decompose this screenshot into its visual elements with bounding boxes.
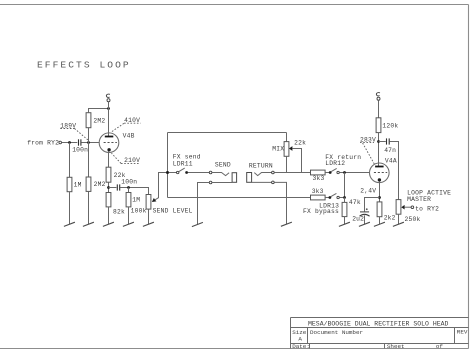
wire 1M to ground <box>69 192 71 225</box>
wire plate to cap <box>379 141 386 143</box>
svg-text:2u2: 2u2 <box>352 215 364 222</box>
junction cathode divider node <box>107 186 110 189</box>
wire send sleeve to ground <box>198 183 210 225</box>
svg-text:2M2: 2M2 <box>94 181 106 188</box>
svg-text:FX bypass: FX bypass <box>303 208 339 215</box>
resistor R8 3k3 (bypass) <box>311 195 326 200</box>
wire 2M2 to ground <box>88 191 90 224</box>
wire return tip to mix node <box>274 172 310 174</box>
capacitor C1 100n (input) <box>78 139 80 145</box>
junction plate node <box>377 140 380 143</box>
ground (2M2) <box>83 222 94 226</box>
wire 47k ground <box>344 217 346 225</box>
capacitor C4 2u2 (polarized) <box>360 211 369 213</box>
title block frame <box>291 318 469 349</box>
ground (send jack sleeve) <box>192 222 203 226</box>
resistor R1 1M (input) <box>67 177 72 191</box>
resistor R5 82k <box>106 193 111 207</box>
svg-text:of: of <box>436 343 444 350</box>
wire cathode to cap 2u2 <box>365 198 380 212</box>
ground (master pot) <box>393 222 404 226</box>
sheet border right <box>468 5 470 349</box>
resistor R6 1M (send) <box>126 193 131 207</box>
terminal to RY2 <box>411 206 414 209</box>
svg-text:210V: 210V <box>124 157 140 164</box>
svg-text:Document Number: Document Number <box>310 329 363 336</box>
triode V4A <box>370 163 390 183</box>
svg-text:100k: 100k <box>131 208 147 215</box>
svg-text:to RY2: to RY2 <box>415 205 439 212</box>
junction grid node <box>87 141 90 144</box>
switch LDR12 <box>325 172 329 174</box>
junction 1M node <box>127 186 130 189</box>
wire wiper to RY2 <box>405 206 412 208</box>
wire loop left vertical <box>167 133 169 198</box>
wire input node down <box>69 143 71 178</box>
svg-text:SEND LEVEL: SEND LEVEL <box>153 208 193 215</box>
resistor R9 47k (grid leak) <box>342 202 347 216</box>
svg-text:Date:: Date: <box>292 343 310 350</box>
junction supply rail <box>107 107 110 110</box>
junction 47k node <box>343 196 346 199</box>
wire master pot ground <box>398 214 400 224</box>
supply symbol C (V4A) <box>377 97 380 100</box>
svg-text:1M: 1M <box>74 182 82 189</box>
junction input node <box>68 141 71 144</box>
wire cap to pot <box>120 188 149 195</box>
svg-text:47n: 47n <box>384 147 396 154</box>
wire mix wiper <box>292 149 301 173</box>
switch LDR13 <box>325 197 329 199</box>
capacitor C2 100n (send) <box>116 184 118 190</box>
svg-text:SEND: SEND <box>215 162 231 169</box>
resistor R4 22k (cathode) <box>106 167 111 182</box>
wire cap to grid node <box>81 142 99 144</box>
wire LDR11 to send jack <box>188 172 209 174</box>
capacitor C3 47n <box>386 138 388 144</box>
wire node to 1M <box>128 188 130 193</box>
wire supply to 120k <box>378 100 380 118</box>
svg-text:RETURN: RETURN <box>249 163 273 170</box>
ground (2u2) <box>359 222 370 226</box>
svg-text:100n: 100n <box>121 178 137 185</box>
resistor R7 3k3 (return) <box>311 170 326 175</box>
svg-text:120k: 120k <box>382 122 398 129</box>
leader 189V underline <box>60 128 74 130</box>
svg-text:82k: 82k <box>113 209 125 216</box>
svg-text:LDR11: LDR11 <box>173 161 193 168</box>
svg-text:Sheet: Sheet <box>387 343 405 350</box>
svg-text:MIX: MIX <box>272 145 284 152</box>
svg-text:V4A: V4A <box>385 157 397 164</box>
svg-text:REV: REV <box>457 329 468 336</box>
ground (1M send) <box>123 222 134 226</box>
ground (input 1M) <box>64 222 75 226</box>
ground (send level pot) <box>143 222 154 226</box>
svg-text:2M2: 2M2 <box>93 118 105 125</box>
wire node to cap <box>109 187 117 189</box>
sheet border top <box>0 4 469 6</box>
svg-text:LDR12: LDR12 <box>325 160 345 167</box>
ground (2k2) <box>374 222 385 226</box>
resistor R10 120k (plate) <box>376 118 381 133</box>
svg-text:2,4V: 2,4V <box>360 188 376 195</box>
wire 2k2 ground <box>379 217 381 225</box>
wire return sleeve to ground <box>274 182 286 224</box>
potentiometer LOOP ACTIVE MASTER 250k <box>396 200 401 215</box>
svg-text:A: A <box>298 336 302 343</box>
wire cathode V4A <box>379 181 381 202</box>
wire loop to mix top <box>286 133 288 142</box>
svg-text:from RY2: from RY2 <box>27 140 59 147</box>
svg-text:MASTER: MASTER <box>407 196 431 203</box>
svg-text:2k2: 2k2 <box>384 215 396 222</box>
wire 120k to plate <box>378 133 380 167</box>
triode V4B <box>99 133 119 153</box>
wire send sleeve to body <box>212 182 232 184</box>
ground (return jack sleeve) <box>281 222 292 226</box>
wire supply to plate <box>108 102 110 137</box>
wire return sleeve to body <box>252 181 272 183</box>
ground (47k) <box>339 222 350 226</box>
svg-text:250k: 250k <box>405 216 421 223</box>
wire 1M send to ground <box>128 207 130 224</box>
resistor R2 2M2 (upper divider) <box>86 113 91 128</box>
terminal from RY2 <box>59 141 62 144</box>
svg-text:MESA/BOOGIE DUAL RECTIFIER SOL: MESA/BOOGIE DUAL RECTIFIER SOLO HEAD <box>308 321 449 328</box>
resistor R3 2M2 (lower divider) <box>86 177 91 191</box>
svg-text:100n: 100n <box>72 146 88 153</box>
switch LDR11 <box>169 172 177 174</box>
wire cap to master pot <box>390 142 399 200</box>
wire grid node down <box>344 173 346 198</box>
wire 2u2 ground <box>364 215 366 224</box>
wire divider vertical <box>88 128 90 177</box>
wire loop top <box>168 132 287 134</box>
wire input <box>62 142 78 144</box>
ground (82k) <box>103 222 114 226</box>
wire mix bottom <box>286 156 288 172</box>
potentiometer SEND LEVEL 100k <box>146 195 151 210</box>
sheet border bottom <box>0 348 469 350</box>
svg-text:3k3: 3k3 <box>313 175 325 182</box>
svg-text:22k: 22k <box>294 139 306 146</box>
svg-text:EFFECTS LOOP: EFFECTS LOOP <box>37 60 131 71</box>
resistor R11 2k2 (cathode) <box>377 202 382 217</box>
junction wiper node <box>166 171 169 174</box>
wire pot bottom ground <box>148 209 150 224</box>
svg-text:47k: 47k <box>349 199 361 206</box>
wire 22k to node <box>108 182 110 192</box>
leader 189V <box>75 129 89 141</box>
wire cathode down <box>108 151 110 167</box>
junction cathode node <box>378 196 381 199</box>
junction grid node V4A <box>343 171 346 174</box>
wire 82k to ground <box>108 207 110 224</box>
wire wiper up <box>155 173 166 200</box>
svg-text:V4B: V4B <box>123 132 135 139</box>
wire LDR12 to grid <box>339 172 369 174</box>
wire 2M2 top to supply rail <box>89 109 109 113</box>
svg-text:3k3: 3k3 <box>312 188 324 195</box>
supply symbol C (V4B) <box>107 99 110 102</box>
svg-text:1M: 1M <box>132 197 140 204</box>
wire bypass bus <box>168 197 311 199</box>
